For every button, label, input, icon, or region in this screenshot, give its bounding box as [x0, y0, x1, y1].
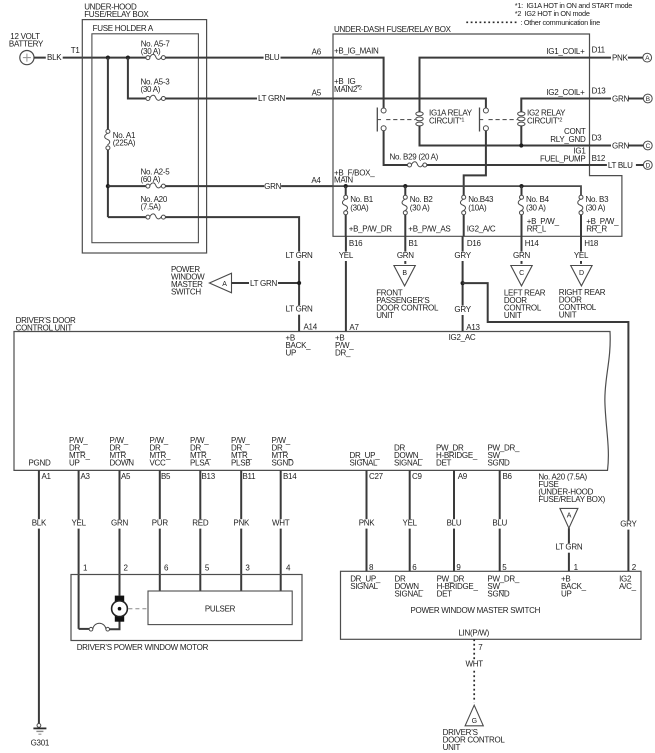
wire YEL B16 to A7 [338, 236, 360, 332]
svg-text:GRY: GRY [620, 519, 637, 528]
svg-text:*2 IG2 HOT in ON mode: *2 IG2 HOT in ON mode [515, 9, 590, 18]
svg-text:UP: UP [561, 590, 572, 599]
svg-text:LT GRN: LT GRN [286, 251, 313, 260]
fuse A20 7.5A [141, 195, 168, 219]
svg-text:(30 A): (30 A) [410, 204, 430, 213]
wire GRN to A4 [165, 176, 333, 192]
wire GRY D16 to A13 [454, 236, 480, 332]
labels LT GRN on A14 feed [285, 251, 318, 332]
svg-text:RED: RED [192, 518, 209, 527]
svg-text:CIRCUIT*1: CIRCUIT*1 [429, 117, 464, 126]
svg-text:BLU: BLU [492, 518, 507, 527]
svg-text:B12: B12 [592, 154, 606, 163]
svg-text:IG1_COIL+: IG1_COIL+ [546, 47, 585, 56]
relay IG2 coil [518, 112, 525, 126]
svg-text:A7: A7 [349, 323, 359, 332]
svg-text:PGND: PGND [29, 459, 51, 468]
label switch pin 2 [632, 563, 637, 572]
svg-text:PLSB: PLSB [231, 459, 250, 468]
svg-text:RLY_GND: RLY_GND [550, 135, 586, 144]
svg-text:D: D [646, 163, 651, 170]
wire IG2_COIL+ D13 to coil [521, 88, 589, 112]
svg-text:(60 A): (60 A) [141, 175, 161, 184]
svg-text:UP: UP [286, 349, 297, 358]
wire GRN A5 to motor pin 2 [111, 470, 128, 595]
relay IG1A dashed link [386, 119, 415, 121]
motor M1 [112, 596, 128, 622]
wire LT GRN to A5 [165, 89, 333, 105]
svg-text:+B_IG_MAIN: +B_IG_MAIN [334, 47, 379, 56]
svg-text:PLSA: PLSA [190, 459, 210, 468]
svg-text:B5: B5 [161, 472, 171, 481]
svg-text:FUSE/RELAY BOX): FUSE/RELAY BOX) [538, 495, 605, 504]
svg-text:C: C [519, 270, 524, 277]
wire into fuse A1 [107, 58, 109, 130]
svg-text:SIGNAL: SIGNAL [350, 459, 378, 468]
wire LIN(P/W) pin 7 dotted [466, 639, 484, 702]
svg-text:BLK: BLK [32, 518, 47, 527]
svg-text:GRN: GRN [612, 94, 629, 103]
wire bus to fuse B4 [521, 186, 523, 195]
svg-text:FUEL_PUMP: FUEL_PUMP [540, 154, 586, 163]
svg-text:GRY: GRY [454, 251, 471, 260]
battery 12V B1 [9, 32, 44, 65]
svg-text:D16: D16 [467, 239, 482, 248]
svg-text:A1: A1 [42, 472, 52, 481]
wire bus to fuse B1 [345, 186, 347, 195]
svg-text:LT GRN: LT GRN [555, 543, 582, 552]
svg-text:SWITCH: SWITCH [171, 288, 201, 297]
svg-text:D: D [579, 270, 584, 277]
fuse holder A box [92, 24, 198, 243]
driver&#39;s power window motor box [71, 575, 302, 653]
svg-text:UNIT: UNIT [559, 311, 577, 320]
pin labels driver unit bottom [29, 436, 520, 481]
svg-text:DET: DET [437, 590, 453, 599]
svg-text:UNIT: UNIT [504, 311, 522, 320]
connector triangle C left rear door [511, 266, 532, 286]
label power window master switch (left) [171, 265, 205, 297]
wire PUR B5 to pulser pin 6 [151, 470, 169, 591]
svg-text:T1: T1 [71, 46, 81, 55]
fuse B3 30A [578, 195, 609, 215]
wire LT GRN fuse A20 output [165, 217, 299, 331]
connector triangle D right rear door [571, 266, 592, 286]
svg-text:No. B29 (20 A): No. B29 (20 A) [390, 152, 439, 161]
svg-text:GRN: GRN [513, 251, 530, 260]
svg-text:A/C_: A/C_ [619, 582, 636, 591]
wire YEL C9 to switch pin 6 [401, 470, 418, 572]
svg-text:IG2_COIL+: IG2_COIL+ [546, 88, 585, 97]
label right rear door control unit [559, 288, 606, 320]
relay IG1A coil [416, 112, 423, 126]
wire IG1 FUEL_PUMP to B12 [427, 147, 590, 166]
wire YEL A3 to motor pin 1 [70, 470, 88, 629]
svg-text:SGND: SGND [272, 459, 294, 468]
svg-text:A3: A3 [81, 472, 91, 481]
wire LT GRN triangle A to junction [232, 279, 300, 289]
svg-text:+B_P/W_AS: +B_P/W_AS [408, 225, 450, 234]
svg-text:SIGNAL: SIGNAL [394, 459, 422, 468]
wire +B_P/W_RR_L to pin H14 [522, 215, 560, 248]
fuse A5-3 30A [141, 78, 171, 101]
fuse B29 20A [390, 152, 439, 167]
thermal protector [89, 623, 109, 631]
svg-text:PNK: PNK [359, 518, 376, 527]
svg-text:UNIT: UNIT [376, 311, 394, 320]
svg-text:H18: H18 [584, 239, 599, 248]
svg-text:(30 A): (30 A) [141, 85, 161, 94]
svg-text:LT GRN: LT GRN [286, 305, 313, 314]
svg-text:B6: B6 [503, 472, 513, 481]
wire +B_P/W_RR_R to pin H18 [581, 215, 619, 248]
svg-text:A: A [567, 513, 572, 520]
connector triangle A power window master switch [209, 273, 231, 293]
fuse B2 30A [402, 195, 433, 215]
label IG1A RELAY CIRCUIT*1 [429, 109, 473, 126]
svg-text:PNK: PNK [233, 518, 250, 527]
svg-text:DET: DET [436, 459, 452, 468]
svg-text:BLK: BLK [47, 53, 62, 62]
svg-text:BLU: BLU [265, 53, 280, 62]
svg-text:GRN: GRN [397, 251, 414, 260]
svg-text:YEL: YEL [339, 251, 354, 260]
svg-text:SIGNAL: SIGNAL [350, 582, 378, 591]
junction dots on battery feed [106, 56, 130, 60]
wire IG2_A/C branch to master switch [463, 283, 638, 571]
label IG2 RELAY CIRCUIT*2 [527, 109, 566, 126]
svg-text:PULSER: PULSER [205, 604, 236, 613]
svg-text:(30A): (30A) [350, 204, 369, 213]
svg-text:PNK: PNK [612, 53, 629, 62]
svg-text:A5: A5 [312, 89, 322, 98]
junction LT GRN [297, 281, 301, 285]
svg-text:RR_R: RR_R [586, 225, 607, 234]
junction GRY IG2_A/C [461, 281, 465, 285]
svg-text:G301: G301 [31, 738, 50, 747]
note *1 IG1A HOT [515, 1, 633, 10]
svg-text:SGND: SGND [488, 459, 510, 468]
svg-text:B: B [646, 96, 650, 103]
svg-text:GRN: GRN [612, 141, 629, 150]
svg-text:FUSE/RELAY BOX: FUSE/RELAY BOX [84, 10, 149, 19]
wire +B_P/W_DR to pin B16 [346, 215, 393, 248]
svg-text:(7.5A): (7.5A) [141, 203, 162, 212]
svg-text:CIRCUIT*2: CIRCUIT*2 [527, 117, 562, 126]
svg-text:G: G [472, 718, 477, 725]
svg-text:A14: A14 [304, 323, 318, 332]
svg-text:LIN(P/W): LIN(P/W) [458, 629, 489, 638]
terminal D13 GRN to connector B [590, 87, 653, 105]
fuse B4 30A [518, 195, 549, 215]
wire IG2 relay contact to fuse B43 [464, 131, 486, 195]
wire +B_F/BOX_MAIN bus A4 [333, 169, 581, 196]
svg-text:C27: C27 [369, 472, 384, 481]
svg-text:B14: B14 [283, 472, 297, 481]
svg-text:B13: B13 [202, 472, 216, 481]
wire to fuse A20 [108, 216, 146, 218]
svg-text:PUR: PUR [152, 518, 169, 527]
wire PNK B11 to pulser pin 3 [233, 470, 251, 591]
svg-text:A9: A9 [458, 472, 468, 481]
wire +B_IG_MAIN2 A5 to IG2 relay contact [333, 77, 486, 108]
under-hood fuse/relay box [82, 2, 206, 253]
wire BLK A1 to ground [31, 470, 48, 723]
pulser box [148, 591, 292, 625]
svg-text:DOWN: DOWN [110, 459, 135, 468]
svg-text:YEL: YEL [403, 518, 418, 527]
under-dash fuse/relay box [333, 25, 622, 236]
svg-text:B: B [402, 270, 407, 277]
svg-text:C9: C9 [412, 472, 422, 481]
svg-text:POWER WINDOW MASTER SWITCH: POWER WINDOW MASTER SWITCH [411, 606, 541, 615]
terminal D11 PNK to connector A [590, 46, 652, 64]
note *2 IG2 HOT [515, 9, 590, 18]
svg-text:UP: UP [69, 459, 80, 468]
svg-text:: Other communication line: : Other communication line [520, 18, 600, 27]
relay IG1A contact [377, 108, 386, 132]
wire +B_P/W_AS to pin B1 [405, 215, 450, 248]
relay IG2 dashed link [489, 119, 518, 121]
svg-text:FUSE HOLDER A: FUSE HOLDER A [93, 24, 154, 33]
svg-text:LT BLU: LT BLU [608, 161, 633, 170]
fuse A1 225A [105, 129, 136, 150]
svg-text:WHT: WHT [466, 660, 484, 669]
svg-text:+B_P/W_DR: +B_P/W_DR [349, 225, 393, 234]
wire GRN B1 to connector B triangle [397, 236, 414, 264]
wire thermal protector to motor brush [110, 622, 120, 630]
svg-text:WHT: WHT [272, 518, 290, 527]
svg-text:A: A [222, 281, 227, 288]
wire YEL H18 to connector D triangle [573, 236, 590, 264]
relay IG2 contact [480, 108, 489, 132]
svg-text:GRN: GRN [111, 518, 128, 527]
svg-text:YEL: YEL [71, 518, 86, 527]
wire fuse A1 to A2-5 bus [106, 150, 110, 217]
wire bus to fuse B2 [404, 186, 406, 195]
svg-text:SGND: SGND [487, 590, 509, 599]
svg-text:BLU: BLU [447, 518, 462, 527]
svg-text:LT GRN: LT GRN [258, 94, 285, 103]
svg-text:UNIT: UNIT [443, 743, 461, 752]
dashed link motor to pulser [128, 608, 148, 610]
label driver door control unit (bottom) [443, 728, 506, 752]
svg-text:B11: B11 [243, 472, 257, 481]
terminal D3 GRN to connector C [590, 134, 653, 152]
svg-text:(30 A): (30 A) [141, 47, 161, 56]
svg-text:LT GRN: LT GRN [250, 279, 277, 288]
wire WHT B14 to pulser pin 4 [272, 470, 291, 591]
svg-text:C: C [646, 143, 651, 150]
ground G301 [31, 724, 50, 748]
pin labels inside driver unit top [286, 333, 476, 358]
wire branch to fuse A5-3 [128, 58, 146, 99]
svg-text:GRN: GRN [264, 182, 281, 191]
svg-text:VCC: VCC [150, 459, 167, 468]
connector triangle B front passenger door [394, 266, 415, 286]
svg-text:BATTERY: BATTERY [9, 39, 44, 48]
svg-text:MAIN: MAIN [334, 176, 353, 185]
wire BLU A9 to switch pin 9 [446, 470, 463, 572]
svg-text:DR_: DR_ [335, 349, 351, 358]
svg-text:D3: D3 [592, 134, 602, 143]
wire LT GRN to switch pin 1 [554, 528, 583, 572]
svg-text:B16: B16 [349, 239, 363, 248]
svg-text:(30 A): (30 A) [586, 204, 606, 213]
label front passenger door control unit [376, 289, 439, 321]
label No.A20 fuse reference [538, 472, 605, 504]
wire GRN H14 to connector C triangle [513, 236, 530, 264]
driver&#39;s door control unit box [14, 316, 610, 470]
svg-text:D11: D11 [592, 46, 606, 55]
wire BLU to A6 [165, 48, 333, 64]
svg-text:(30 A): (30 A) [526, 204, 546, 213]
fuse A5-7 30A [141, 39, 171, 59]
svg-text:(10A): (10A) [468, 204, 487, 213]
fuse B43 10A [460, 195, 494, 215]
bus junction dots [344, 184, 524, 188]
svg-text:YEL: YEL [574, 251, 589, 260]
wire IG2_A/C to pin D16 [464, 215, 496, 248]
svg-text:A4: A4 [311, 176, 321, 185]
svg-text:H14: H14 [525, 239, 540, 248]
connector triangle A fuse A20 [560, 508, 578, 528]
terminal B12 LT BLU to connector D [590, 154, 653, 171]
wire BLU B6 to switch pin 5 [491, 470, 508, 572]
svg-text:RR_L: RR_L [527, 225, 547, 234]
svg-text:A6: A6 [312, 48, 322, 57]
svg-text:A5: A5 [121, 472, 131, 481]
note other communication line legend [466, 18, 600, 27]
wire motor pin1 lower path [79, 628, 90, 630]
wire +B_IG_MAIN A6 to IG1A relay contact [333, 47, 384, 108]
connector triangle G driver door control unit [465, 705, 483, 726]
svg-text:DRIVER’S POWER WINDOW MOTOR: DRIVER’S POWER WINDOW MOTOR [77, 643, 209, 652]
label left rear door control unit [504, 289, 546, 321]
svg-text:SIGNAL: SIGNAL [395, 590, 423, 599]
pin labels master switch [350, 575, 636, 599]
svg-text:A13: A13 [466, 323, 480, 332]
svg-text:CONTROL UNIT: CONTROL UNIT [16, 323, 73, 332]
wire CONT RLY_GND coils to D3 [420, 126, 590, 148]
wire to fuse A2-5 [108, 185, 146, 187]
wire RED B13 to pulser pin 5 [192, 470, 210, 591]
power window master switch box [341, 571, 642, 639]
svg-text:GRY: GRY [454, 305, 471, 314]
wire BLK battery feed, node T1 [34, 46, 146, 63]
fuse B1 30A [342, 195, 373, 215]
svg-text:UNDER-DASH FUSE/RELAY BOX: UNDER-DASH FUSE/RELAY BOX [334, 25, 452, 34]
svg-text:B1: B1 [409, 239, 419, 248]
svg-text:(225A): (225A) [113, 139, 136, 148]
svg-text:IG2_AC: IG2_AC [449, 333, 476, 342]
wire IG1A contact to fuse B29 [384, 131, 408, 165]
svg-text:D13: D13 [592, 87, 607, 96]
fuse A2-5 60A [141, 168, 171, 189]
wire PNK C27 to switch pin 8 [358, 470, 375, 572]
wire IG1_COIL+ D11 to coil [420, 47, 590, 112]
svg-text:IG2_A/C: IG2_A/C [467, 225, 496, 234]
